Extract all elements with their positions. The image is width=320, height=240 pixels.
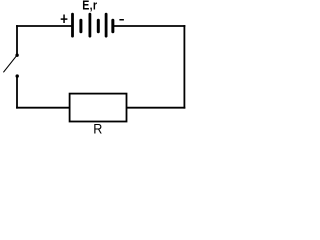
svg-text:E,r: E,r [82, 0, 97, 13]
svg-text:R: R [93, 121, 102, 135]
